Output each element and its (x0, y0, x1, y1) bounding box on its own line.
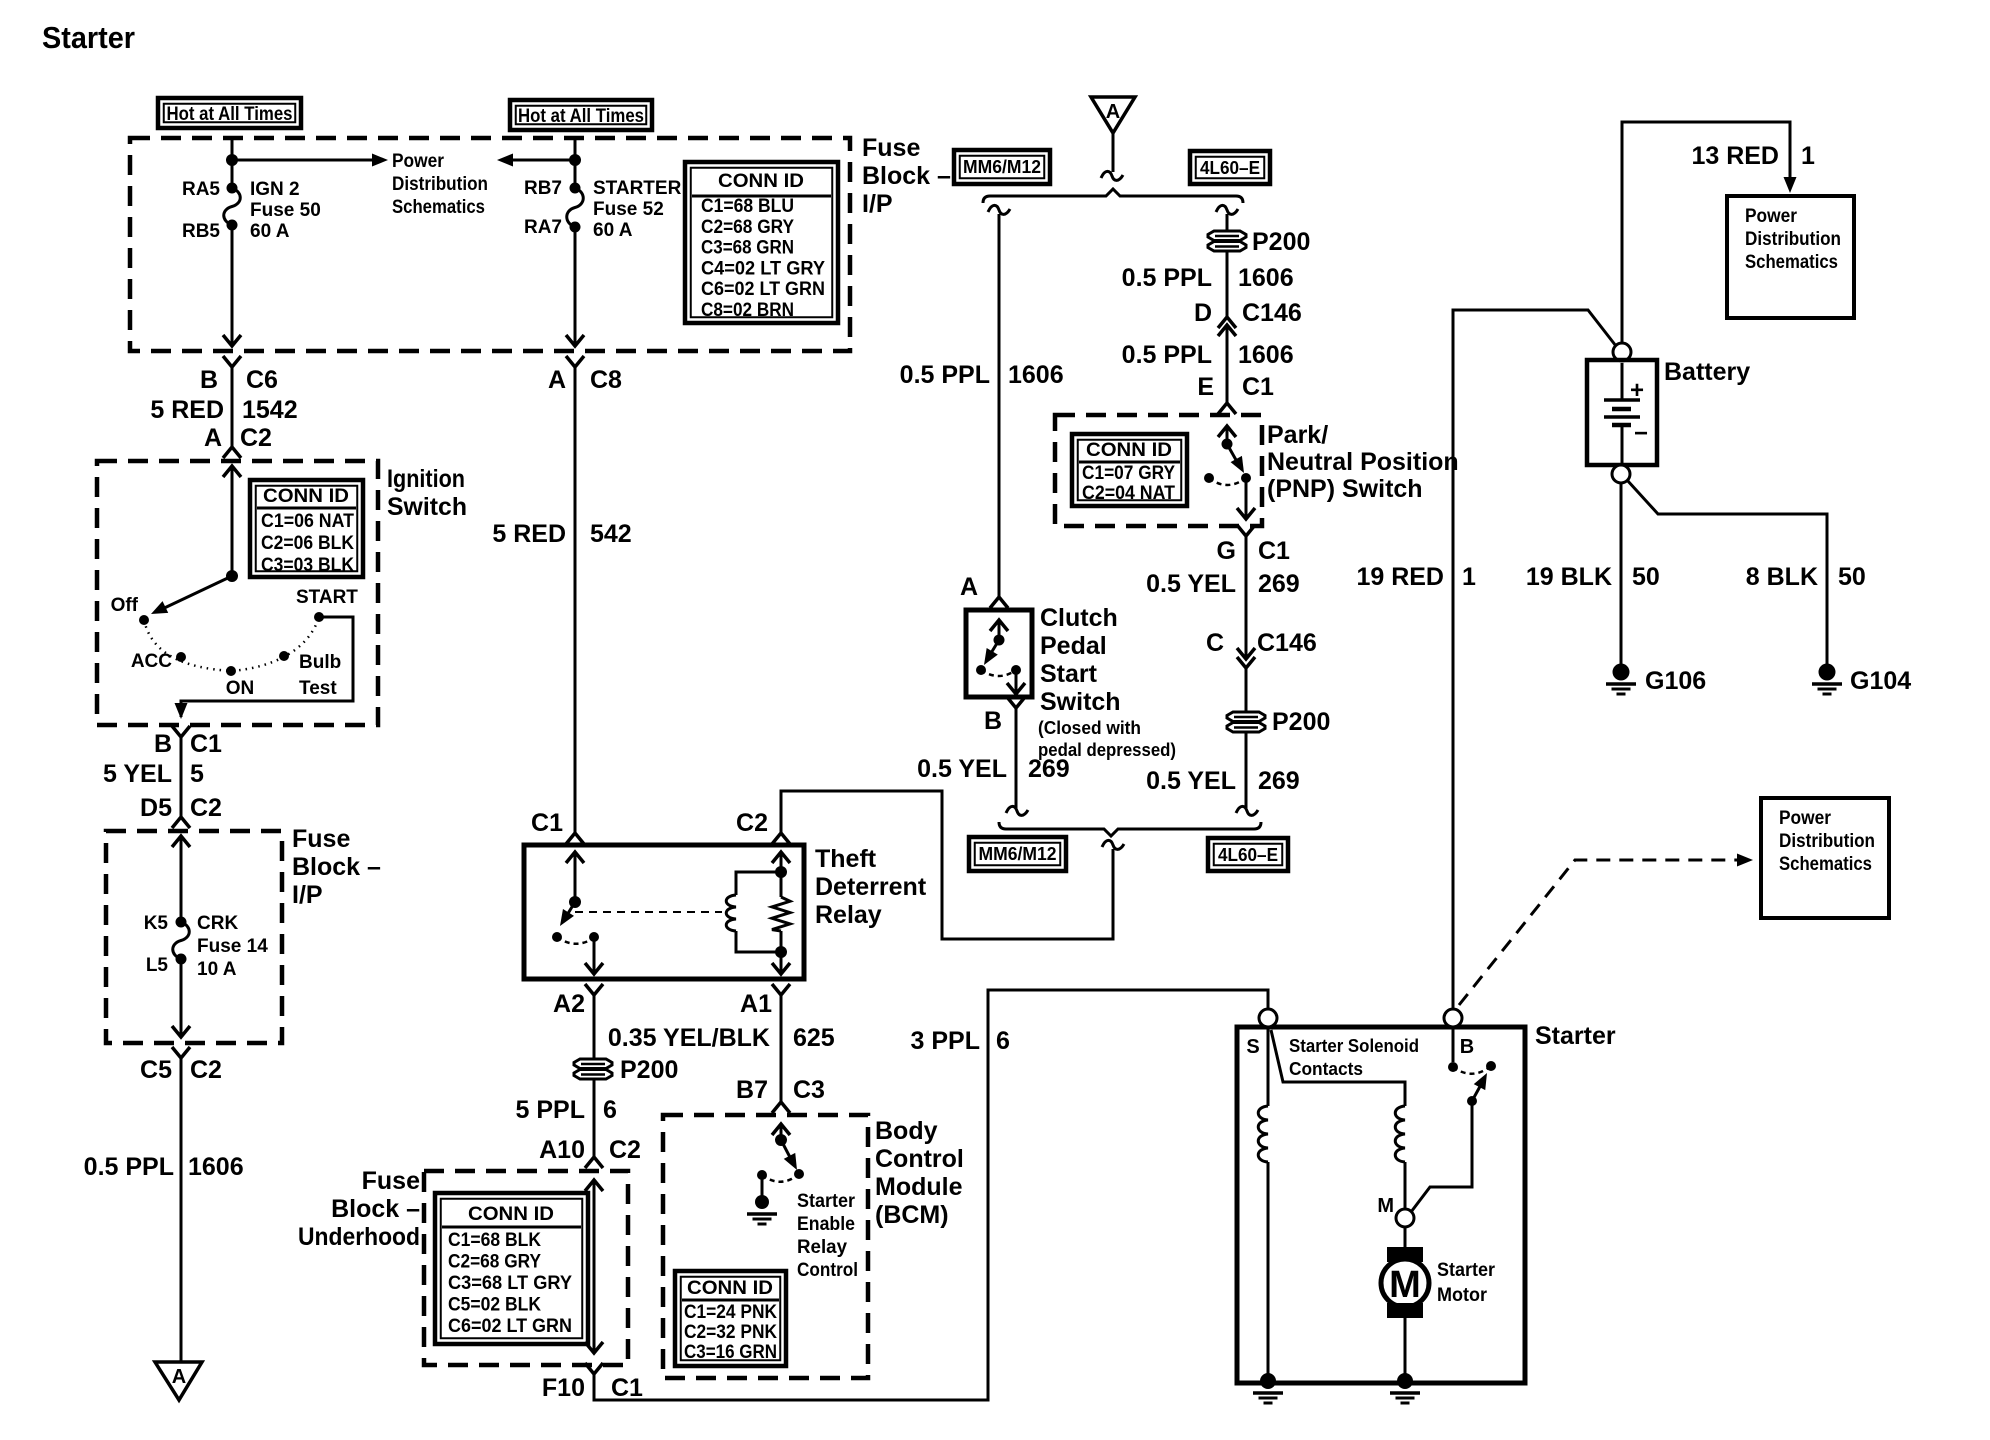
PNP output wire (1245, 478, 1248, 519)
svg-text:C1: C1 (611, 1374, 643, 1402)
clutch output contact (1011, 665, 1021, 675)
svg-text:Starter: Starter (1437, 1260, 1496, 1281)
svg-text:Hot at All Times: Hot at All Times (167, 104, 293, 125)
clutch switch input wire (998, 620, 1001, 640)
svg-text:Contacts: Contacts (1289, 1059, 1363, 1079)
battery (1587, 360, 1657, 465)
clutch contact (976, 665, 986, 675)
svg-text:G106: G106 (1645, 667, 1706, 695)
svg-text:Power: Power (1779, 808, 1832, 829)
wire from Hot at All Times 2 down to fuse 52 (574, 138, 577, 188)
svg-text:F10: F10 (542, 1374, 585, 1402)
svg-text:Fuse: Fuse (292, 825, 350, 853)
connector chevrons into clutch switch (990, 597, 1008, 608)
svg-text:B: B (984, 707, 1002, 735)
contact ON (226, 666, 236, 676)
BCM throw dashed arc (762, 1174, 799, 1182)
svg-text:ON: ON (226, 678, 255, 699)
PNP switch blade arrow (1227, 444, 1240, 467)
power distribution schematics box (top right) (1727, 196, 1854, 318)
starter motor (1387, 1247, 1423, 1262)
svg-text:I/P: I/P (292, 881, 323, 909)
svg-text:Fuse 52: Fuse 52 (593, 199, 664, 220)
wire MM6/M12 branch hook (988, 205, 1010, 214)
svg-text:Switch: Switch (1040, 688, 1121, 716)
relay contact (552, 932, 562, 942)
wire 5 YEL 5 (180, 737, 183, 817)
PNP throw dashed arc (1209, 478, 1246, 485)
svg-text:C6=02 LT GRN: C6=02 LT GRN (701, 279, 825, 300)
svg-text:Fuse: Fuse (362, 1167, 420, 1195)
relay A1 output wire (780, 952, 783, 974)
svg-text:Block –: Block – (292, 853, 381, 881)
svg-text:C2: C2 (736, 809, 768, 837)
svg-text:6: 6 (603, 1096, 617, 1124)
ground (starter pull-in coil) (1260, 1373, 1276, 1389)
svg-text:Theft: Theft (815, 845, 877, 873)
svg-text:5: 5 (190, 760, 204, 788)
battery top terminal circle (1613, 343, 1631, 361)
svg-text:C1: C1 (1258, 537, 1290, 565)
svg-text:A: A (172, 1366, 186, 1388)
svg-text:269: 269 (1258, 767, 1300, 795)
clutch switch node (994, 635, 1005, 646)
svg-text:Schematics: Schematics (1779, 854, 1872, 875)
CONN ID table (fuse block underhood) (435, 1193, 588, 1344)
wire ignition input (231, 466, 234, 576)
svg-text:5 YEL: 5 YEL (103, 760, 172, 788)
wire CRK fuse down to box edge (180, 959, 183, 1037)
svg-text:19 RED: 19 RED (1356, 563, 1444, 591)
connector chevron below theft relay A1 (772, 984, 790, 995)
terminal M circle (1396, 1209, 1414, 1227)
contact Bulb Test (279, 651, 289, 661)
svg-text:C2: C2 (190, 794, 222, 822)
fuse STARTER Fuse 52 60 A (570, 183, 581, 194)
connector chevron below theft relay A2 (585, 984, 603, 995)
split bracket (top) (983, 189, 1243, 203)
svg-text:Underhood: Underhood (298, 1223, 420, 1251)
svg-text:Schematics: Schematics (392, 197, 485, 218)
svg-text:I/P: I/P (862, 190, 893, 218)
CONN ID table (BCM) (675, 1271, 786, 1366)
connector chevron below fuse block underhood (585, 1363, 603, 1374)
PNP switch input wire (1226, 426, 1229, 444)
wire 5 RED 542 (574, 367, 577, 833)
svg-text:L5: L5 (146, 955, 169, 976)
connector chevrons into fuse block I/P (172, 817, 190, 828)
connector chevron below fuse block I/P (172, 1047, 190, 1058)
wire motor to ground (1404, 1318, 1407, 1377)
relay coil feed wire (780, 852, 783, 872)
svg-text:5 RED: 5 RED (492, 520, 566, 548)
wire 0.5 YEL 269 (clutch) (1015, 708, 1018, 808)
svg-text:CONN ID: CONN ID (687, 1278, 773, 1299)
svg-text:P200: P200 (1252, 228, 1310, 256)
svg-text:3 PPL: 3 PPL (911, 1027, 980, 1055)
svg-text:Control: Control (797, 1260, 858, 1281)
connector chevron below fuse block (A C8) (566, 356, 584, 367)
contact START (314, 612, 324, 622)
svg-text:0.5 YEL: 0.5 YEL (917, 755, 1007, 783)
svg-text:Battery: Battery (1664, 358, 1750, 386)
svg-text:D5: D5 (140, 794, 172, 822)
BCM switch blade arrow (781, 1140, 793, 1163)
svg-text:Pedal: Pedal (1040, 632, 1107, 660)
svg-text:Off: Off (111, 595, 139, 616)
wire 5 RED 1542 (231, 367, 234, 447)
svg-text:1606: 1606 (1238, 341, 1294, 369)
wire from page connector A (1112, 133, 1115, 172)
svg-text:C3=16 GRN: C3=16 GRN (684, 1342, 777, 1363)
svg-text:C2: C2 (190, 1056, 222, 1084)
svg-text:10 A: 10 A (197, 959, 237, 980)
svg-text:C3=68 GRN: C3=68 GRN (701, 238, 794, 259)
svg-text:G104: G104 (1850, 667, 1911, 695)
ignition switch rotor node (226, 570, 238, 582)
svg-text:Ignition: Ignition (387, 465, 465, 493)
svg-text:C2=68 GRY: C2=68 GRY (448, 1252, 541, 1273)
svg-text:Fuse 14: Fuse 14 (197, 936, 268, 957)
wire 19 RED 1 from starter B to battery (1453, 310, 1616, 1010)
theft deterrent relay box (524, 845, 804, 979)
wire through fuse block underhood (593, 1180, 596, 1353)
svg-text:60 A: 60 A (250, 221, 290, 242)
svg-text:Schematics: Schematics (1745, 252, 1838, 273)
PNP alt contact (1204, 473, 1214, 483)
clutch pedal start switch box (966, 610, 1032, 697)
svg-text:C1: C1 (190, 730, 222, 758)
wire 19 BLK 50 to G106 (1620, 483, 1623, 664)
svg-text:C8=02 BRN: C8=02 BRN (701, 300, 794, 321)
power distribution schematics box (bottom right) (1761, 798, 1889, 918)
relay switch node (569, 896, 581, 908)
relay resistor branch (780, 872, 783, 897)
svg-text:6: 6 (996, 1027, 1010, 1055)
junction node (569, 154, 581, 166)
wire 0.5 PPL 1606 down to clutch switch (998, 214, 1001, 597)
starter box (1237, 1027, 1525, 1383)
connector chevron below fuse block (223, 356, 241, 367)
svg-text:C2: C2 (240, 424, 272, 452)
BCM alt contact (757, 1170, 767, 1180)
svg-text:Distribution: Distribution (1745, 229, 1841, 250)
svg-text:5 PPL: 5 PPL (516, 1096, 585, 1124)
svg-text:0.5 PPL: 0.5 PPL (1122, 341, 1212, 369)
svg-text:C3=03 BLK: C3=03 BLK (261, 555, 354, 576)
svg-text:Motor: Motor (1437, 1285, 1488, 1306)
svg-text:+: + (1630, 377, 1644, 404)
connector chevrons into ignition switch (223, 447, 241, 458)
svg-text:Park/: Park/ (1267, 421, 1328, 449)
svg-text:Clutch: Clutch (1040, 604, 1118, 632)
junction node (775, 866, 787, 878)
svg-text:0.35 YEL/BLK: 0.35 YEL/BLK (608, 1024, 770, 1052)
svg-text:50: 50 (1632, 563, 1660, 591)
svg-text:0.5 YEL: 0.5 YEL (1146, 570, 1236, 598)
label box Hot at All Times (right) (510, 100, 652, 130)
wire into CRK fuse (180, 836, 183, 922)
svg-text:CONN ID: CONN ID (1086, 440, 1172, 461)
svg-text:C2=68 GRY: C2=68 GRY (701, 217, 794, 238)
PNP output contact (1241, 473, 1251, 483)
svg-text:CONN ID: CONN ID (718, 171, 804, 192)
inline connector C146 chevrons (1218, 317, 1236, 328)
svg-text:1606: 1606 (1008, 361, 1064, 389)
wire A1 to BCM (780, 995, 783, 1102)
svg-text:C2: C2 (609, 1136, 641, 1164)
svg-text:C6: C6 (246, 366, 278, 394)
svg-text:Starter: Starter (797, 1191, 856, 1212)
wire A2 to P200 (593, 995, 596, 1058)
svg-text:50: 50 (1838, 563, 1866, 591)
svg-text:0.5 PPL: 0.5 PPL (1122, 264, 1212, 292)
solenoid blade node (1467, 1096, 1477, 1106)
svg-text:4L60–E: 4L60–E (1200, 158, 1260, 178)
park/neutral position switch dashed box (1055, 415, 1262, 526)
ground G104 (1819, 664, 1836, 681)
svg-text:269: 269 (1258, 570, 1300, 598)
relay output contact (589, 932, 599, 942)
svg-text:5 RED: 5 RED (150, 396, 224, 424)
ground G106 (1613, 664, 1630, 681)
svg-text:M: M (1389, 1264, 1421, 1306)
svg-text:M: M (1377, 1195, 1394, 1217)
svg-text:C5: C5 (140, 1056, 172, 1084)
fuse block I/P dashed box (lower) (106, 831, 282, 1043)
wire C146 to PNP switch (1226, 325, 1229, 403)
svg-text:Starter Solenoid: Starter Solenoid (1289, 1036, 1419, 1056)
svg-text:0.5 YEL: 0.5 YEL (1146, 767, 1236, 795)
BCM switch contact (794, 1169, 804, 1179)
BCM ground wire (761, 1175, 764, 1196)
wire arrow to Power Distribution Schematics (232, 159, 372, 162)
svg-text:MM6/M12: MM6/M12 (963, 157, 1041, 177)
label box 4L60-E (top) (1190, 151, 1270, 184)
svg-text:E: E (1197, 373, 1214, 401)
svg-text:ACC: ACC (131, 651, 172, 672)
svg-text:542: 542 (590, 520, 632, 548)
svg-text:1: 1 (1462, 563, 1476, 591)
ground (BCM) (755, 1195, 769, 1209)
svg-text:Start: Start (1040, 660, 1098, 688)
BCM switch node (775, 1134, 787, 1146)
svg-text:Distribution: Distribution (1779, 831, 1875, 852)
svg-text:C4=02 LT GRY: C4=02 LT GRY (701, 258, 825, 279)
ignition switch dashed box (97, 461, 378, 725)
page connector triangle A (top) (1091, 97, 1135, 133)
svg-text:Hot at All Times: Hot at All Times (518, 106, 644, 127)
svg-text:Control: Control (875, 1145, 964, 1173)
svg-text:C146: C146 (1257, 629, 1317, 657)
PNP switch node (1222, 439, 1233, 450)
wire P200 to bracket (1245, 733, 1248, 808)
svg-text:625: 625 (793, 1024, 835, 1052)
solenoid contact node (1448, 1062, 1458, 1072)
svg-text:C6=02 LT GRN: C6=02 LT GRN (448, 1316, 572, 1337)
solenoid throw dashed arc (1453, 1066, 1491, 1074)
CONN ID table (ignition switch) (250, 480, 363, 577)
svg-text:0.5 PPL: 0.5 PPL (84, 1153, 174, 1181)
clutch output wire (1015, 670, 1018, 694)
svg-text:19 BLK: 19 BLK (1526, 563, 1612, 591)
svg-text:Relay: Relay (797, 1237, 847, 1258)
svg-text:8 BLK: 8 BLK (1746, 563, 1818, 591)
svg-text:D: D (1194, 299, 1212, 327)
svg-text:4L60–E: 4L60–E (1218, 845, 1278, 865)
svg-text:A10: A10 (539, 1136, 585, 1164)
wire arrow from Power Distribution Schematics to STARTER fuse (497, 154, 513, 167)
svg-text:MM6/M12: MM6/M12 (979, 844, 1057, 864)
svg-text:Fuse: Fuse (862, 134, 920, 162)
svg-text:1606: 1606 (188, 1153, 244, 1181)
svg-text:Enable: Enable (797, 1214, 855, 1235)
clutch switch blade arrow (988, 640, 999, 658)
relay output wire (593, 937, 596, 974)
junction node (775, 946, 787, 958)
wire fuse 52 down to box edge (574, 227, 577, 346)
svg-text:C1=68 BLU: C1=68 BLU (701, 196, 794, 217)
terminal S circle (1259, 1009, 1277, 1027)
svg-text:P200: P200 (1272, 708, 1330, 736)
svg-text:RB5: RB5 (182, 221, 220, 242)
svg-text:Test: Test (299, 678, 337, 699)
svg-text:CRK: CRK (197, 913, 238, 934)
wire 0.5 PPL 1606 to page connector A (180, 1058, 183, 1362)
contact ACC (176, 652, 186, 662)
svg-text:−: − (1634, 420, 1648, 447)
svg-text:C146: C146 (1242, 299, 1302, 327)
svg-text:START: START (296, 587, 358, 608)
svg-text:S: S (1246, 1036, 1259, 1058)
connector chevrons into theft relay C1 (566, 833, 584, 844)
svg-text:C: C (1206, 629, 1224, 657)
svg-text:RB7: RB7 (524, 178, 562, 199)
connector chevrons ignition to fuse block (172, 726, 190, 737)
wire C146 to P200 (1245, 668, 1248, 711)
svg-text:CONN ID: CONN ID (263, 486, 349, 507)
solenoid contact wire from B (1452, 1027, 1455, 1062)
inline connector P200 (right) (1227, 712, 1265, 722)
svg-text:C1: C1 (531, 809, 563, 837)
svg-text:G: G (1217, 537, 1236, 565)
wire 4L60-E branch hook (1216, 205, 1238, 214)
svg-text:Bulb: Bulb (299, 652, 341, 673)
svg-text:Distribution: Distribution (392, 174, 488, 195)
svg-text:C8: C8 (590, 366, 622, 394)
CONN ID table (PNP switch) (1072, 434, 1187, 506)
svg-text:Switch: Switch (387, 493, 467, 521)
label box 4L60-E (bottom) (1208, 838, 1288, 871)
svg-text:13 RED: 13 RED (1691, 142, 1779, 170)
inline connector P200 (top right) (1208, 231, 1246, 241)
svg-text:Power: Power (392, 151, 445, 172)
merge bracket (bottom) (999, 822, 1261, 836)
wire from Hot at All Times to fuse IGN 2 (231, 138, 234, 188)
svg-text:0.5 PPL: 0.5 PPL (900, 361, 990, 389)
label box MM6/M12 (top) (954, 150, 1050, 184)
svg-text:CONN ID: CONN ID (468, 1204, 554, 1225)
ignition switch blade arrow to Off (158, 576, 232, 611)
wire P200 to C146 (1226, 252, 1229, 317)
svg-text:B7: B7 (736, 1076, 768, 1104)
solenoid blade arrow (1472, 1081, 1483, 1101)
svg-text:B: B (1460, 1036, 1474, 1058)
svg-text:(PNP) Switch: (PNP) Switch (1267, 475, 1423, 503)
fuse CRK Fuse 14 10 A (176, 917, 187, 928)
body control module dashed box (663, 1115, 868, 1378)
svg-text:A: A (1106, 101, 1120, 123)
relay switch common wire (574, 852, 577, 902)
svg-text:C1=68 BLK: C1=68 BLK (448, 1230, 541, 1251)
fuse block underhood dashed box (424, 1171, 628, 1365)
page connector triangle A (bottom left) (155, 1362, 202, 1400)
connector chevrons into BCM (772, 1102, 790, 1113)
wire 0.5 YEL 269 (below PNP) (1245, 536, 1248, 659)
svg-text:1: 1 (1801, 142, 1815, 170)
contact Off (139, 615, 149, 625)
ground (starter motor) (1397, 1373, 1413, 1389)
svg-text:(Closed with: (Closed with (1038, 718, 1141, 738)
wire 5 PPL 6 (593, 1080, 596, 1157)
starter pull-in coil branch (1267, 1027, 1270, 1106)
svg-text:Module: Module (875, 1173, 963, 1201)
svg-text:C2=32 PNK: C2=32 PNK (684, 1322, 777, 1343)
svg-text:B: B (154, 730, 172, 758)
svg-text:A2: A2 (553, 990, 585, 1018)
starter hold-in coil branch (1271, 1030, 1405, 1106)
svg-text:60 A: 60 A (593, 220, 633, 241)
svg-text:P200: P200 (620, 1056, 678, 1084)
svg-text:Starter: Starter (1535, 1022, 1616, 1050)
connector chevrons into PNP switch (1218, 403, 1236, 414)
wire M to starter motor (1404, 1227, 1407, 1248)
svg-text:1606: 1606 (1238, 264, 1294, 292)
svg-text:C3=68 LT GRY: C3=68 LT GRY (448, 1273, 572, 1294)
fuse block I/P dashed box (top) (130, 138, 850, 351)
svg-text:C1=24 PNK: C1=24 PNK (684, 1302, 777, 1323)
svg-text:C1=07 GRY: C1=07 GRY (1082, 463, 1175, 484)
connector chevron below PNP switch (1237, 525, 1255, 536)
terminal B circle (1444, 1009, 1462, 1027)
svg-text:A: A (548, 366, 566, 394)
svg-text:K5: K5 (144, 913, 169, 934)
relay switch blade (564, 902, 575, 920)
relay dashed actuation line (575, 911, 722, 913)
wire battery to 13 RED junction (1622, 122, 1790, 343)
svg-text:A: A (204, 424, 222, 452)
svg-text:RA7: RA7 (524, 217, 562, 238)
battery bottom terminal circle (1612, 465, 1630, 483)
connector chevron below clutch switch (1007, 697, 1025, 708)
junction node (226, 154, 238, 166)
svg-text:IGN 2: IGN 2 (250, 179, 300, 200)
fuse IGN 2 Fuse 50 60 A (227, 183, 238, 194)
label box MM6/M12 (bottom) (969, 837, 1066, 871)
svg-text:(BCM): (BCM) (875, 1201, 949, 1229)
svg-text:Power: Power (1745, 206, 1798, 227)
svg-text:C5=02 BLK: C5=02 BLK (448, 1295, 541, 1316)
label box Hot at All Times (left) (158, 98, 301, 128)
svg-text:269: 269 (1028, 755, 1070, 783)
wire START to ignition output (181, 617, 353, 717)
svg-text:STARTER: STARTER (593, 178, 682, 199)
svg-text:C1=06 NAT: C1=06 NAT (261, 511, 354, 532)
svg-text:Block –: Block – (862, 162, 951, 190)
connector chevrons into fuse block underhood (585, 1157, 603, 1168)
svg-text:C1: C1 (1242, 373, 1274, 401)
svg-text:B: B (200, 366, 218, 394)
